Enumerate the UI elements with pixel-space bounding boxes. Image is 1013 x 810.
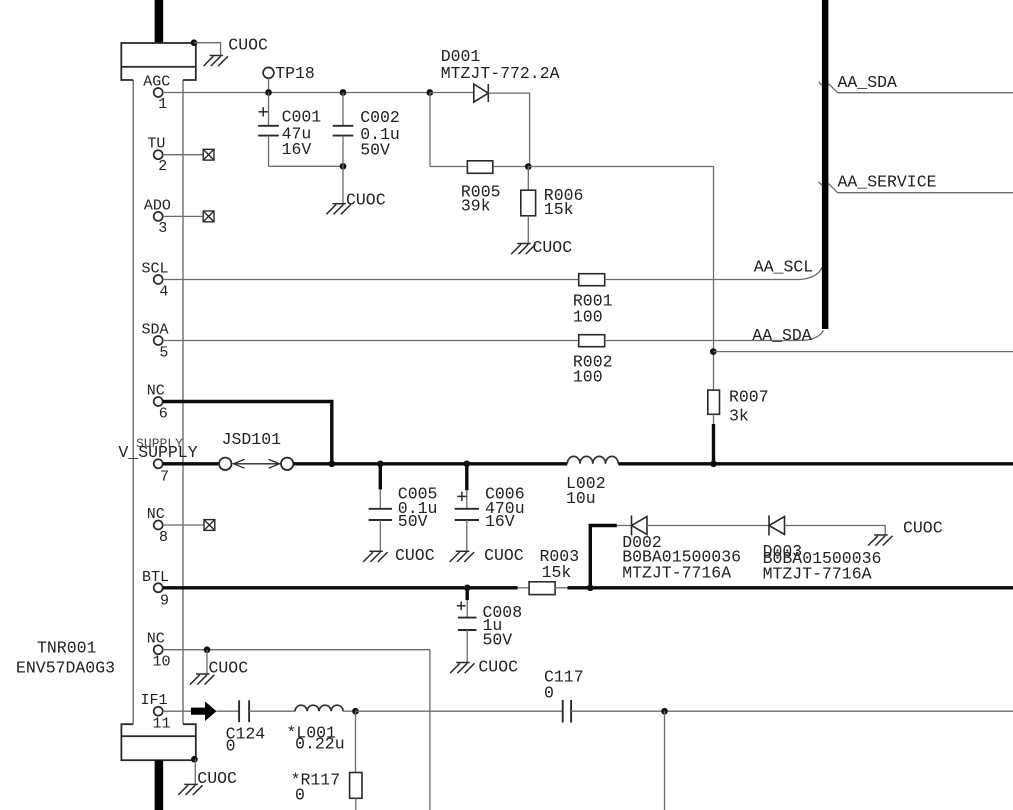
junction dot C005 top [377,460,384,467]
wire D003 to ground [785,526,886,536]
pin AGC 1 [154,88,163,97]
junction dot NC6/V_SUPPLY [328,460,335,467]
svg-text:AA_SDA: AA_SDA [752,326,812,345]
capacitor C005 0.1u 50V [379,464,382,490]
pin SUPPLY 7 / net V_SUPPLY [154,459,163,468]
svg-text:11: 11 [153,716,171,733]
svg-text:AA_SCL: AA_SCL [754,257,813,276]
wire R006 to ground [527,216,529,244]
wire net AA_SDA to bus [605,340,803,342]
pin NC 6 [154,397,163,406]
inductor L002 10u [567,456,618,463]
resistor R003 15k [518,587,529,589]
signal flow arrow IF1 [191,701,217,721]
wire flange to ground [194,759,196,784]
tuner TNR001 body outline [133,80,183,724]
svg-text:MTZJT-772.2A: MTZJT-772.2A [441,64,560,83]
tuner bottom coax stub (thick) [155,760,164,810]
junction dot C001/C002 bottom [340,163,347,170]
svg-text:CUOC: CUOC [903,519,943,538]
resistor R002 100 [579,335,605,347]
no-connect X pin8 [204,520,215,531]
wire C001 bottom to C002 bottom [269,165,344,167]
ground CUOC tuner shield [204,56,228,67]
svg-text:BTL: BTL [142,569,169,586]
junction dot pin10 ground tap [204,646,211,653]
svg-text:50V: 50V [398,512,428,531]
wire R005 to node B [493,166,530,168]
junction dot tuner shield to ground [191,39,198,46]
junction dot TP18/C001 [265,89,272,96]
junction dot diode branch [587,584,594,591]
BTL rail (thick) to right edge [568,586,1013,589]
junction dot R007/V_SUPPLY [710,460,717,467]
junction dot L001/R117 [343,710,356,712]
wire arrow to C124 [217,710,240,712]
svg-text:CUOC: CUOC [346,191,386,210]
svg-text:CUOC: CUOC [209,659,249,678]
pin SCL 4 [154,275,163,284]
svg-text:ENV57DA0G3: ENV57DA0G3 [16,659,115,678]
pin SDA 5 [154,336,163,345]
wire shield to ground [194,43,221,56]
svg-text:TNR001: TNR001 [37,639,97,658]
junction dot C117 branch [661,708,668,715]
svg-text:R007: R007 [729,388,769,407]
ground CUOC below C008 [450,663,474,674]
wire net AA_SCL to bus [605,279,800,281]
pin IF1 11 [154,707,163,716]
svg-text:MTZJT-7716A: MTZJT-7716A [763,565,872,584]
wire D001 anode down to R005 [429,93,431,167]
ground CUOC below R006 [511,244,535,255]
V_SUPPLY rail (thick) to L002 [294,462,568,465]
svg-text:0.22u: 0.22u [295,734,345,753]
bus entry AA_SERVICE [819,182,823,186]
svg-text:NC: NC [147,506,165,523]
svg-text:50V: 50V [360,141,390,160]
resistor R007 3k [708,390,720,414]
svg-text:6: 6 [159,406,168,423]
svg-text:MTZJT-7716A: MTZJT-7716A [622,564,731,583]
wire TU pin2 to no-connect [163,154,204,156]
svg-text:9: 9 [160,592,169,609]
tuner bottom flange [121,724,195,760]
svg-text:100: 100 [573,368,603,387]
svg-text:0: 0 [295,785,305,804]
wire SCL pin4 to R001 [163,279,579,281]
ground CUOC tuner bottom [178,784,202,795]
junction dot C002 top [340,89,347,96]
svg-text:50V: 50V [483,631,513,650]
junction dot SDA branch [710,348,717,355]
svg-text:10: 10 [153,654,171,671]
svg-text:AA_SERVICE: AA_SERVICE [838,173,937,192]
wire BTL pin9 to R003 (thick) [163,586,518,589]
ground CUOC below C002 [326,204,350,215]
wire IF1 pin11 to arrow [163,710,192,712]
svg-text:IF1: IF1 [141,692,168,709]
ground CUOC diode clamp [868,535,892,546]
svg-text:TU: TU [147,136,165,153]
tuner TNR001 antenna coax input (thick stub top) [155,0,164,44]
wire SDA branch to right edge [713,351,1013,353]
svg-text:3: 3 [158,220,167,237]
junction dot C008 top [464,584,471,591]
ground CUOC pin10 [190,674,214,685]
svg-text:0: 0 [226,737,236,756]
tuner top flange [121,43,196,80]
pin NC 10 [154,645,163,654]
inductor *L001 0.22u [295,705,343,711]
svg-text:16V: 16V [485,512,515,531]
svg-text:TP18: TP18 [275,64,315,83]
bus entry AA_SDA top [819,82,823,86]
svg-text:15k: 15k [544,200,574,219]
svg-text:5: 5 [159,345,168,362]
V_SUPPLY rail (thick) L002 to right edge [618,462,1013,465]
resistor R006 15k [527,167,529,191]
wire NC pin6 to V_SUPPLY (thick elbow) [163,402,332,464]
junction dot D001 anode node [426,89,433,96]
resistor R001 100 [579,274,605,286]
resistor R005 39k [467,161,492,174]
pin NC 8 [154,521,163,530]
svg-text:16V: 16V [282,140,312,159]
wire D001 cathode down to node B [529,93,531,167]
svg-text:3k: 3k [729,407,749,426]
resistor *R117 0 [355,711,357,772]
wire SDA pin5 to R002 [163,340,579,342]
svg-text:CUOC: CUOC [395,546,435,565]
wire NC pin8 to no-connect [163,524,204,526]
svg-text:AA_SDA: AA_SDA [838,73,898,92]
wire R007 to V_SUPPLY (thick) [713,414,715,425]
wire pin10 to ground [206,650,208,674]
svg-text:CUOC: CUOC [228,36,268,55]
wire C124 to L001 [249,710,295,712]
capacitor C008 1u 50V electrolytic [466,588,469,600]
ground CUOC below C005 [363,551,387,562]
ground CUOC below C006 [450,551,474,562]
wire C117 to right edge [571,710,1013,712]
svg-text:39k: 39k [461,197,491,216]
no-connect X pin3 [203,211,214,222]
capacitor C001 47u 16V electrolytic [268,93,270,126]
svg-text:NC: NC [147,383,165,400]
I2C bus (thick vertical) [822,0,829,329]
capacitor C124 0 [239,700,249,722]
diode D003 B0BA01500036 MTZJT-7716A [769,516,785,536]
jumper JSD101 [219,458,231,470]
svg-text:JSD101: JSD101 [222,430,282,449]
wire AGC pin1 to D001 node [163,92,430,94]
diode D001 MTZJT-772.2A [430,92,474,94]
svg-text:10u: 10u [566,489,596,508]
wire AA_SDA to right edge [838,92,1013,94]
svg-text:AGC: AGC [143,74,170,91]
wire IF1 to C117 [356,710,563,712]
svg-text:SCL: SCL [142,261,169,278]
capacitor C002 0.1u 50V [342,93,344,126]
pin TU 2 [154,150,163,159]
pin ADO 3 [154,212,163,221]
svg-text:7: 7 [160,468,169,485]
wire node B to R007 branch [528,166,713,168]
diode D002 B0BA01500036 MTZJT-7716A [632,516,648,536]
test point TP18 [263,67,274,78]
wire pin7 to jumper (thick) [163,462,219,465]
wire C117 branch down to edge [664,711,666,810]
svg-text:V_SUPPLY: V_SUPPLY [118,443,197,462]
svg-text:15k: 15k [542,563,572,582]
svg-text:CUOC: CUOC [484,546,524,565]
svg-text:0: 0 [544,684,554,703]
junction dot C006 top [463,460,470,467]
junction dot node B [525,163,532,170]
svg-text:SDA: SDA [142,322,169,339]
wire AA_SERVICE to right edge [838,192,1013,194]
wire BTL up to diodes (thick elbow) [590,526,617,588]
svg-text:1: 1 [158,96,167,113]
junction dot bottom flange ground [191,756,198,763]
svg-text:CUOC: CUOC [533,238,573,257]
svg-text:NC: NC [147,631,165,648]
svg-text:CUOC: CUOC [478,658,518,677]
no-connect X pin2 [203,149,214,160]
svg-text:4: 4 [159,284,168,301]
wire R117 to bottom edge [355,798,357,810]
pin BTL 9 [154,583,163,592]
capacitor C117 0 [563,700,571,723]
wire elbow to D002 [617,525,632,527]
svg-text:ADO: ADO [144,197,171,214]
capacitor C006 470u 16V electrolytic [465,464,468,491]
wire NC pin10 right and down to edge [163,649,207,651]
svg-text:100: 100 [573,308,603,327]
svg-text:CUOC: CUOC [197,769,237,788]
svg-text:8: 8 [159,529,168,546]
wire ADO pin3 to no-connect [163,215,204,217]
svg-text:2: 2 [158,158,167,175]
wire D002 to D003 [647,525,769,527]
wire R003 to BTL rail [555,587,568,589]
